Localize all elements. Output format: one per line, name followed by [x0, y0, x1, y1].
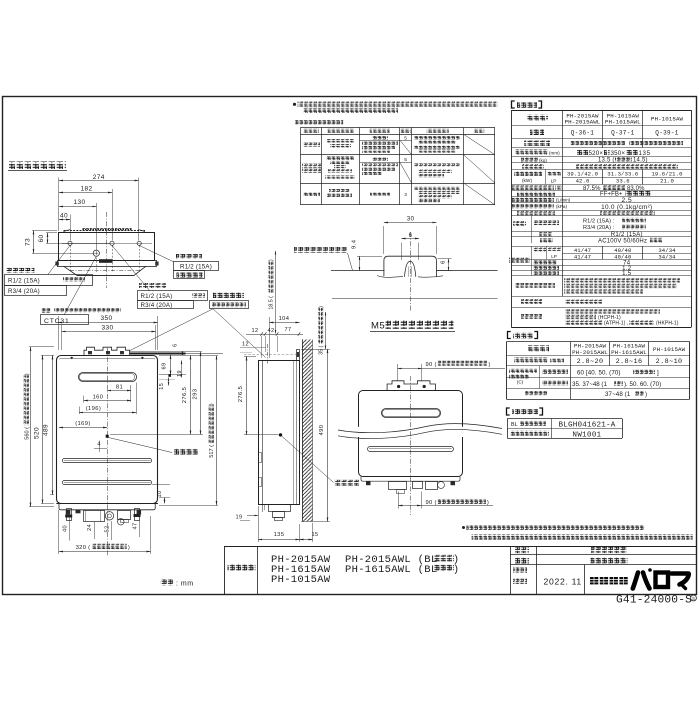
callout water inlet — [112, 245, 150, 291]
keyhole boss outline — [384, 256, 437, 276]
side view top cover surface dashed — [244, 354, 296, 356]
dim 19 side — [247, 515, 258, 517]
svg-text:10.0 (0.1kg/cm²): 10.0 (0.1kg/cm²) — [601, 204, 652, 211]
dim 350 above front view — [58, 316, 60, 350]
capacity temp range label — [509, 369, 537, 373]
front view exhaust vent — [79, 373, 137, 382]
svg-text:(kPa): (kPa) — [556, 204, 567, 209]
dim 520 — [41, 355, 54, 357]
svg-text:42.0: 42.0 — [576, 178, 590, 185]
svg-text:R1/2 (15A) :: R1/2 (15A) : — [583, 218, 615, 224]
svg-text:BLGH041621-A: BLGH041621-A — [558, 422, 615, 430]
svg-text:35. 37~48 (1: 35. 37~48 (1 — [572, 381, 607, 388]
svg-text:): ) — [487, 500, 489, 506]
svg-text:PH-1015AW: PH-1015AW — [271, 574, 331, 586]
svg-text:). 50. 60. (70): ). 50. 60. (70) — [624, 381, 661, 388]
capacity table grid — [506, 341, 689, 343]
svg-text:21.0: 21.0 — [660, 178, 674, 185]
date label — [513, 568, 527, 573]
svg-text:90 (: 90 ( — [426, 500, 437, 506]
top view connection row line — [62, 243, 152, 245]
svg-text:12: 12 — [251, 328, 258, 334]
dim 490 — [301, 349, 330, 351]
svg-text:]: ] — [657, 370, 659, 377]
spec row min flow — [512, 198, 554, 203]
dim 73 — [32, 230, 57, 232]
front view feet tabs — [66, 510, 71, 515]
svg-text:(169): (169) — [75, 421, 91, 427]
side view keyhole center line — [267, 344, 269, 365]
front cover top surface line — [130, 353, 186, 355]
spec row product names — [527, 115, 548, 121]
dim 160 interior — [83, 396, 85, 403]
svg-text:4: 4 — [97, 442, 101, 448]
spec sub dividers — [545, 169, 547, 184]
dim 135 — [258, 506, 260, 542]
capacity row output — [514, 358, 548, 363]
item value — [591, 557, 628, 563]
top view drop lines — [70, 246, 72, 273]
svg-text:2022. 11: 2022. 11 — [544, 577, 582, 587]
svg-text:R3/4 (20A): R3/4 (20A) — [8, 288, 40, 295]
fixing table row3 cells — [303, 192, 320, 196]
side view center of gravity — [279, 433, 282, 436]
svg-text:135: 135 — [639, 150, 651, 157]
svg-text:24: 24 — [87, 524, 93, 531]
callout PS mounting bracket M5 keyhole — [213, 293, 244, 299]
svg-text:2.8~20: 2.8~20 — [577, 358, 604, 366]
svg-text:182: 182 — [80, 186, 92, 193]
dim 12 keyhole — [240, 347, 266, 349]
svg-text:G41-24000-S: G41-24000-S — [616, 595, 692, 607]
svg-text:520×: 520× — [589, 150, 604, 157]
dim 6 boss height — [438, 258, 452, 260]
svg-text:52: 52 — [105, 525, 111, 532]
dim 40 — [70, 215, 72, 241]
side view front cover line — [262, 360, 264, 504]
dim 330 — [61, 325, 63, 350]
change notice text — [467, 525, 645, 530]
svg-text:): ) — [488, 362, 490, 368]
svg-text:(HKPH-1): (HKPH-1) — [656, 320, 679, 326]
svg-text:69: 69 — [161, 362, 167, 369]
svg-text:PH-2015AWL: PH-2015AWL — [572, 349, 608, 356]
svg-text:9.4: 9.4 — [351, 239, 357, 249]
svg-text:490: 490 — [319, 425, 325, 436]
dim 19 front — [181, 361, 183, 378]
top view bottom flange — [58, 261, 157, 267]
svg-text:3: 3 — [404, 192, 407, 198]
spec row ignition — [522, 164, 544, 169]
svg-text:274: 274 — [93, 174, 105, 181]
top view power cord outlet circle — [93, 250, 99, 256]
spec row combustion control — [517, 192, 555, 197]
svg-text:12: 12 — [242, 341, 249, 347]
svg-text:(kW): (kW) — [522, 178, 533, 184]
svg-text:33.6: 33.6 — [616, 178, 630, 185]
svg-text:(mm): (mm) — [549, 150, 560, 155]
spec table caption — [512, 101, 515, 108]
svg-text:87.5%: 87.5% — [583, 186, 601, 192]
svg-text:): ) — [209, 403, 215, 405]
svg-text:41/47: 41/47 — [574, 254, 591, 261]
svg-text:160: 160 — [93, 395, 104, 401]
keyhole center line — [410, 232, 412, 312]
svg-text:40: 40 — [60, 213, 68, 220]
dim 69 — [170, 355, 172, 375]
title block verticals — [224, 546, 226, 594]
detail lower line — [332, 298, 498, 300]
top view center line — [106, 212, 108, 288]
dim 276.5 side — [244, 356, 256, 358]
dim 4 (c.g. offset) — [99, 441, 101, 453]
svg-text:(ATPH-1) ,: (ATPH-1) , — [604, 320, 629, 326]
dim 276.5 front — [190, 355, 192, 434]
front view louver slot 1 — [63, 459, 152, 463]
capacity remote off row — [542, 369, 568, 374]
top view water inlet circle — [110, 241, 114, 245]
dim 47 pipe — [139, 521, 141, 538]
svg-text:R3/4 (20A): R3/4 (20A) — [141, 302, 173, 309]
side view wall hatching — [302, 340, 313, 522]
svg-text:2.5: 2.5 — [621, 197, 632, 204]
svg-text:(196): (196) — [86, 406, 102, 412]
svg-text:PH-1615AWL: PH-1615AWL — [605, 119, 641, 126]
svg-text:PH-2015AWL: PH-2015AWL — [565, 119, 601, 126]
paloma logo pa — [633, 568, 652, 588]
capacity bath fill row — [525, 391, 547, 396]
spec row electric block — [509, 258, 530, 263]
svg-text:350: 350 — [100, 315, 112, 322]
svg-text:293: 293 — [193, 389, 199, 400]
unit mm label — [161, 579, 175, 585]
svg-text:489: 489 — [43, 424, 50, 436]
svg-text:Q-37-1: Q-37-1 — [611, 130, 635, 137]
rear view bottom flange — [361, 476, 460, 481]
top view body — [59, 233, 155, 261]
svg-text:S: S — [692, 596, 695, 601]
callout hot water outlet — [48, 245, 70, 274]
dim 90 bracket bottom — [398, 492, 400, 509]
svg-text:NW1001: NW1001 — [572, 432, 601, 440]
svg-text:47: 47 — [132, 522, 138, 529]
product name cell label — [228, 564, 256, 571]
svg-text:): ) — [455, 563, 459, 575]
dim 104 — [269, 317, 271, 358]
dim 90 bracket top — [397, 364, 399, 381]
svg-text:90 (: 90 ( — [426, 362, 437, 368]
dim 320 PS pitch bottom — [58, 510, 60, 554]
spec row body color — [517, 211, 555, 216]
callout power cord outlet CTC31 — [64, 256, 96, 315]
spec row accessories — [521, 299, 542, 304]
spec row safety features — [515, 283, 555, 288]
dim 15 front — [168, 378, 170, 386]
paloma logo ma — [672, 574, 689, 589]
dim (196) interior — [79, 407, 81, 415]
svg-text:5: 5 — [404, 135, 407, 141]
svg-text:13.5 (: 13.5 ( — [598, 158, 615, 164]
rear view lower slot — [368, 447, 454, 452]
cert table caption — [507, 408, 510, 415]
svg-text:LP: LP — [551, 254, 557, 259]
top view name plate — [99, 259, 113, 263]
svg-text:R3/4 (20A) :: R3/4 (20A) : — [583, 225, 615, 231]
svg-text:(C): (C) — [517, 380, 524, 385]
spec row installation type — [524, 141, 550, 147]
front view inner top line — [60, 358, 155, 359]
dim 18.5 PS hole offset — [275, 251, 277, 334]
front view mounting bracket — [84, 347, 130, 355]
drawing frame — [3, 97, 697, 595]
detail surface line — [331, 270, 385, 272]
installation note bullet — [293, 103, 296, 106]
svg-text:(L/min): (L/min) — [556, 198, 571, 203]
svg-text:): ) — [24, 373, 30, 375]
svg-text:5: 5 — [404, 157, 407, 163]
svg-text:: mm: : mm — [176, 581, 194, 588]
svg-text:60: 60 — [38, 234, 45, 242]
svg-text:40/40: 40/40 — [614, 254, 632, 261]
svg-text:276.5: 276.5 — [238, 386, 244, 403]
rear view body — [359, 391, 463, 477]
fixing table headers — [303, 129, 319, 133]
svg-text:PH-1015AW: PH-1015AW — [651, 116, 684, 123]
svg-text:73: 73 — [25, 238, 32, 246]
svg-text:520: 520 — [34, 427, 41, 439]
svg-text:40: 40 — [63, 525, 69, 532]
side view wall face line — [302, 340, 304, 522]
svg-text:): ) — [269, 259, 275, 261]
dim 517 PS hole pitch right — [159, 355, 218, 357]
svg-text:2.8~16: 2.8~16 — [616, 358, 643, 366]
cert water device row — [510, 431, 549, 436]
svg-text:AC100V 50/60Hz: AC100V 50/60Hz — [598, 238, 647, 244]
svg-text:CTC31: CTC31 — [44, 318, 70, 325]
dim 9.4 — [357, 256, 382, 258]
svg-text:): ) — [128, 545, 130, 551]
rear view center line — [410, 376, 412, 515]
paloma logo ro — [656, 573, 669, 588]
front view louver slot 2 — [63, 481, 152, 485]
dim 60 — [46, 232, 57, 234]
svg-text:37~48 (1: 37~48 (1 — [605, 391, 631, 398]
side view body — [259, 361, 300, 505]
svg-text:135: 135 — [274, 532, 285, 538]
svg-text:15: 15 — [159, 383, 165, 390]
dim 35 bracket offset — [325, 312, 327, 349]
callout gas connection R1/2(15A) — [139, 245, 174, 262]
front cover top surface label — [294, 247, 347, 253]
top view gas connection circle — [137, 241, 141, 245]
svg-text:R1/2 (15A): R1/2 (15A) — [611, 232, 643, 238]
dim 560 bracket pitch — [29, 346, 54, 348]
side view louver profile — [259, 453, 262, 463]
fixing table row1 cells — [303, 143, 320, 147]
dim 489 — [52, 355, 54, 494]
svg-text:42: 42 — [267, 328, 274, 334]
svg-text:517 (: 517 ( — [209, 445, 215, 458]
svg-text:10: 10 — [157, 490, 163, 497]
front view center line — [107, 348, 109, 557]
svg-text:): ) — [319, 306, 325, 308]
svg-text:104: 104 — [279, 316, 290, 322]
top view burner texture — [64, 230, 146, 232]
top view bottom cover trapezoid — [64, 266, 147, 275]
svg-text:560 (: 560 ( — [24, 427, 30, 440]
dim 6 front top — [182, 351, 184, 355]
svg-text:R1/2 (15A): R1/2 (15A) — [180, 264, 212, 271]
capacity table caption — [508, 332, 511, 339]
dim 293 — [130, 351, 202, 353]
drawing name label — [515, 547, 529, 553]
svg-text:R1/2 (15A): R1/2 (15A) — [8, 278, 40, 285]
dim 182 — [112, 189, 114, 241]
front view bottom flange — [56, 503, 158, 505]
dim 274 — [58, 178, 60, 232]
svg-text:): ) — [645, 391, 647, 398]
svg-text:PH-1015AW: PH-1015AW — [653, 346, 686, 353]
fixing method table — [300, 127, 495, 129]
spec row model — [530, 129, 544, 135]
side view bottom pipes — [269, 505, 291, 512]
front view ps holes — [71, 357, 73, 359]
svg-text:60 [40. 50. (70): 60 [40. 50. (70) — [577, 370, 621, 377]
spec table grid — [511, 110, 691, 112]
svg-text:(kg): (kg) — [539, 158, 547, 163]
svg-text:Q-36-1: Q-36-1 — [571, 130, 595, 137]
spec row energy efficiency — [512, 185, 554, 190]
svg-text:FF+FB+: FF+FB+ — [600, 192, 623, 198]
top view caption — [9, 162, 66, 170]
spec row weight — [521, 158, 538, 163]
svg-text:M5: M5 — [371, 321, 385, 332]
svg-text:30: 30 — [407, 216, 415, 222]
rear view mounting bracket — [387, 381, 435, 391]
spec row connections — [513, 221, 526, 226]
drawing name value — [591, 547, 627, 553]
top view hot water outlet circle — [68, 241, 72, 245]
item label — [515, 558, 529, 564]
front view bottom pipes — [67, 509, 72, 521]
svg-text:LP: LP — [551, 179, 557, 185]
capacity product names — [528, 345, 549, 351]
paloma logo kabushiki — [590, 577, 628, 584]
dim 52 pipe — [111, 521, 113, 540]
change notice bullet — [462, 526, 465, 529]
front view body — [57, 356, 158, 504]
rear view bottom pipes — [389, 482, 407, 490]
dim 15 wall — [300, 539, 313, 541]
svg-text:6: 6 — [173, 343, 179, 346]
side view wall bracket — [297, 350, 300, 361]
svg-text:130: 130 — [73, 199, 85, 206]
center of gravity label rear — [282, 436, 334, 482]
rear view exhaust vent — [382, 409, 441, 418]
svg-text:330: 330 — [101, 325, 113, 332]
svg-text:276.5: 276.5 — [182, 387, 188, 404]
svg-text:81: 81 — [116, 385, 123, 391]
svg-text:77: 77 — [284, 327, 291, 333]
svg-text:R1/2 (15A): R1/2 (15A) — [141, 293, 173, 300]
svg-text:19: 19 — [177, 370, 183, 377]
svg-text:2.8~10: 2.8~10 — [656, 358, 683, 366]
spec row gas consumption — [514, 171, 542, 176]
dim 24 pipe — [94, 522, 96, 539]
dim 6 slot — [401, 243, 403, 261]
installation note text — [298, 102, 498, 107]
fixing table caption — [295, 120, 343, 125]
keyhole slot — [405, 261, 416, 277]
front view center of gravity mark — [106, 435, 109, 438]
svg-text:350×: 350× — [611, 150, 626, 157]
svg-text:6: 6 — [441, 260, 447, 264]
spec row gas connection — [539, 232, 552, 236]
dim 40 pipe — [69, 515, 71, 541]
capacity remote on row — [542, 381, 568, 386]
svg-text:34/34: 34/34 — [658, 254, 676, 261]
svg-text:BL: BL — [511, 422, 518, 428]
title block row lines — [511, 554, 697, 556]
spec row outer dims — [515, 150, 548, 155]
rear view break band — [343, 427, 488, 437]
svg-text:18.5 (: 18.5 ( — [269, 296, 275, 310]
svg-text:14.5): 14.5) — [633, 158, 648, 164]
dims 12 42 77 — [246, 334, 303, 336]
center of gravity label front — [109, 438, 173, 453]
spec row min pressure — [512, 204, 554, 209]
svg-text:Q-39-1: Q-39-1 — [655, 130, 679, 137]
svg-text:35 (: 35 ( — [319, 346, 325, 355]
dim 130 — [96, 203, 98, 250]
svg-text:PH-1615AWL (BL: PH-1615AWL (BL — [345, 564, 437, 576]
svg-text:1.5: 1.5 — [622, 271, 632, 277]
fixing table row2 cells — [302, 164, 321, 168]
dim 30 — [383, 226, 385, 254]
svg-text:320 (: 320 ( — [76, 545, 91, 551]
spec row optional items — [521, 314, 542, 319]
cert table grid — [507, 418, 622, 420]
dim (169) interior — [59, 427, 107, 429]
svg-text:PH-1615AWL: PH-1615AWL — [611, 349, 647, 356]
title block top line — [224, 546, 696, 548]
dim 10 louver — [164, 498, 166, 504]
svg-text:6: 6 — [409, 233, 413, 239]
spec row power — [540, 238, 553, 242]
svg-text:19: 19 — [235, 515, 242, 521]
dim 81 interior — [130, 385, 132, 402]
